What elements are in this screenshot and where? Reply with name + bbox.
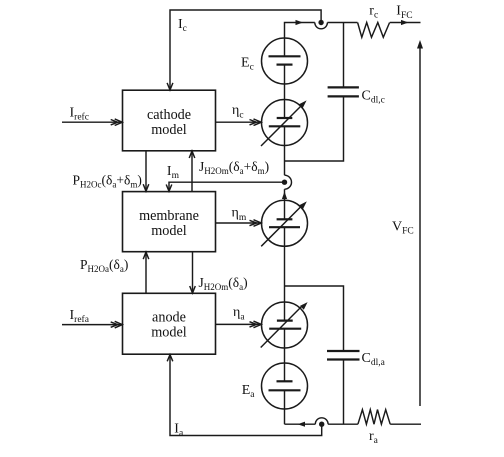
label P_H2Oa(da) [80,257,128,274]
label E_c [241,56,254,73]
wire E_a to bottom rail [284,390,286,424]
E_c battery long plate [269,55,301,57]
resistor r_a [358,410,390,425]
svg-text:Ec: Ec [241,56,254,73]
E_a battery short plate [277,380,293,382]
eta_m input arrow from membrane model [216,222,262,224]
arrowhead J up [189,151,195,158]
svg-text:cathode: cathode [147,107,191,123]
wire top rail left segment [285,23,315,39]
wire J_H2Om(da+dm) from membrane up to cathode [191,151,193,192]
eta_c battery long plate [269,125,301,127]
wire I_c elbow from cathode box top to top rail [170,10,321,90]
svg-text:Irefa: Irefa [70,308,90,325]
anode model box [123,293,216,354]
eta_a input arrow from anode model [216,323,262,325]
svg-text:IFC: IFC [396,4,412,22]
wire top rail right segment [327,22,357,24]
label I_m [167,164,180,181]
arrowhead I_FC [401,20,409,25]
node dot middle junction [282,180,287,185]
arrowhead up toward middle node [282,192,287,200]
crossover hop bottom [315,418,328,424]
E_c internal wire top [284,38,286,56]
eta_a battery long plate [269,328,301,330]
wire C_dl,c to top rail [343,23,345,88]
arrowhead P_H2Oa up [143,252,149,259]
svg-text:anode: anode [152,310,186,326]
wire bottom rail left segment [285,423,316,425]
crossover hop middle [285,175,292,189]
label E_a [242,383,256,400]
voltage source E_c [262,38,308,84]
capacitor C_dl,a [327,350,360,352]
node dot bottom junction [319,422,324,427]
label C_dl,a [362,351,386,368]
label eta_c [232,103,244,121]
label eta_a [233,305,245,323]
voltage source E_a [262,363,308,409]
arrowhead J down [190,286,196,293]
label P_H2Oc(da+dm) [73,173,142,190]
svg-text:JH2Om(δa): JH2Om(δa) [199,275,248,292]
svg-text:PH2Oa(δa): PH2Oa(δa) [80,257,128,274]
wire eta_m down to eta_a [284,227,286,320]
wire P_H2Oa from anode up to membrane [145,252,147,293]
arrowhead on bottom rail pointing left [298,422,306,427]
node dot top junction [318,20,323,25]
wire C_dl,a to bottom rail [343,360,345,425]
eta_m variable diagonal arrow [261,206,302,247]
eta_m battery short plate [277,218,293,220]
resistor r_c [358,23,390,38]
variable source eta_m [262,200,308,246]
arrowhead I_c into cathode box [167,83,173,90]
eta_c input arrow from cathode model [216,121,262,123]
svg-text:Im: Im [167,164,180,181]
label I_refa [70,308,90,325]
label C_dl,c [362,89,385,106]
arrowhead on top rail [296,20,304,25]
wire P_H2Oc from cathode to membrane [145,151,147,191]
svg-text:Ia: Ia [174,422,184,439]
label V_FC [392,220,414,237]
svg-text:model: model [151,122,187,138]
label J_H2Om(da) [199,275,248,292]
eta_c variable diagonal arrow [261,106,302,147]
svg-text:Ea: Ea [242,383,256,400]
arrowhead I_a into anode box [167,355,173,362]
wire hop to eta_m [284,189,286,219]
label I_refc [70,106,89,123]
wire eta_a to E_a [284,329,286,382]
wire J_H2Om(da) from membrane down to anode [192,252,194,293]
svg-text:model: model [151,325,187,341]
svg-text:rc: rc [369,4,378,21]
svg-text:membrane: membrane [139,208,199,224]
eta_m battery long plate [269,226,300,228]
label I_a [174,422,184,439]
label I_c [178,17,187,34]
label I_FC [396,4,412,22]
wire after r_a [390,423,421,425]
membrane model box [123,192,216,252]
svg-text:Irefc: Irefc [70,106,89,123]
label r_a [369,429,379,446]
E_c battery short plate [277,63,293,65]
svg-text:ηa: ηa [233,305,245,323]
variable source eta_a [262,302,308,348]
svg-text:ra: ra [369,429,379,446]
cathode model box [123,90,216,151]
svg-text:PH2Oc(δa+δm): PH2Oc(δa+δm) [73,173,142,190]
wire C_dl,c branch [285,96,344,161]
svg-text:Cdl,a: Cdl,a [362,351,386,368]
label r_c [369,4,378,21]
wire eta_c down to hop [284,126,286,175]
svg-text:JH2Om(δa+δm): JH2Om(δa+δm) [199,159,269,176]
E_a battery long plate [269,389,301,391]
svg-text:Ic: Ic [178,17,187,34]
wire bottom rail right segment [328,423,358,425]
variable source eta_c [262,100,308,146]
arrowhead V_FC up [417,40,423,49]
label J_H2Om(da+dm) [199,159,269,176]
label eta_m [232,206,247,224]
svg-text:VFC: VFC [392,220,414,237]
wire C_dl,a branch top [285,286,344,351]
capacitor C_dl,c [328,86,359,88]
svg-text:Cdl,c: Cdl,c [362,89,385,106]
svg-text:ηc: ηc [232,103,244,121]
V_FC measurement line [419,47,421,406]
wire I_a return from bottom node to anode model [170,354,322,435]
wire E_c to eta_c [284,65,286,118]
svg-text:ηm: ηm [232,206,247,224]
wire after r_c [390,22,421,24]
I_refa input arrow [62,324,122,326]
eta_a variable diagonal arrow [261,305,303,347]
I_refc input arrow [62,121,122,123]
svg-text:model: model [151,223,187,239]
arrowhead P_H2Oc down [143,184,149,191]
eta_a battery short plate [277,320,293,322]
wire I_m branch from middle node to membrane model [169,182,285,191]
arrowhead I_m into membrane box [166,185,172,192]
eta_c battery short plate [277,117,293,119]
crossover hop top [315,23,328,29]
